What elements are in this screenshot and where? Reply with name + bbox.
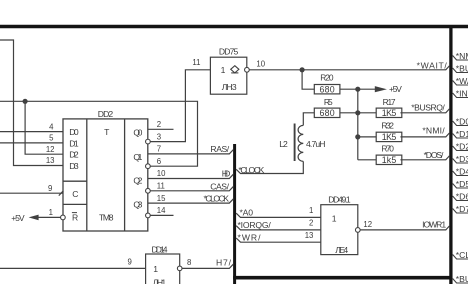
wire R5 left to L2 — [303, 113, 314, 126]
resistor R32 — [376, 132, 402, 141]
svg-text:HD: HD — [222, 169, 231, 179]
wire R17 to BUSRQ — [400, 109, 449, 113]
svg-text:1: 1 — [153, 264, 158, 274]
svg-text:CAS/: CAS/ — [210, 181, 229, 191]
svg-text:1: 1 — [332, 213, 337, 223]
svg-text:1: 1 — [309, 206, 313, 215]
svg-text:*INT: *INT — [456, 89, 468, 99]
bus top thick line — [0, 25, 468, 29]
pin 11 bubble — [146, 188, 151, 193]
wire R5 right — [340, 112, 358, 114]
svg-text:*A0: *A0 — [240, 207, 254, 217]
svg-text:*CLOCK: *CLOCK — [204, 194, 230, 204]
svg-text:8: 8 — [187, 258, 191, 267]
wire to DD2 pin 13 — [0, 40, 63, 166]
node junction — [23, 99, 28, 104]
svg-text:H7/: H7/ — [216, 258, 232, 268]
wire R32 to NMI — [400, 133, 449, 137]
svg-text:12: 12 — [363, 220, 372, 229]
inductor L2 core — [294, 124, 296, 162]
wire DD2 pin 2 stub — [148, 128, 174, 130]
bus flag hook — [453, 81, 468, 86]
bus flag hook — [453, 184, 468, 189]
svg-text:ЛН3: ЛН3 — [222, 82, 237, 92]
svg-text:*NMI/: *NMI/ — [422, 125, 445, 135]
wire R70 to DOS — [400, 156, 449, 160]
wire R17 left — [358, 112, 376, 114]
inductor L2 winding — [298, 125, 303, 161]
svg-text:RAS/: RAS/ — [210, 144, 229, 154]
wire flag WR to DD49.1 pin 13 — [236, 238, 321, 242]
bus flag hook — [453, 146, 468, 151]
DD14 output bubble — [177, 266, 182, 271]
svg-text:TM8: TM8 — [99, 212, 114, 222]
svg-text:15: 15 — [157, 194, 166, 203]
svg-text:1: 1 — [221, 65, 226, 75]
wire R20 to node — [340, 88, 358, 90]
svg-text:R20: R20 — [320, 73, 334, 83]
node junction — [355, 110, 360, 115]
bus flag hook — [453, 121, 468, 126]
svg-text:*NMI: *NMI — [456, 51, 468, 61]
svg-text:*IORQG/: *IORQG/ — [238, 220, 272, 230]
resistor R70 — [376, 155, 402, 164]
C input edge tick — [59, 191, 64, 196]
wire to DD2 pin 4 — [0, 131, 63, 133]
svg-text:*BUSAK: *BUSAK — [456, 274, 468, 284]
wire to R20 — [302, 70, 314, 89]
svg-text:*CLOCK: *CLOCK — [238, 165, 264, 175]
svg-text:T: T — [104, 127, 110, 137]
svg-text:DD75: DD75 — [219, 46, 239, 56]
svg-text:10: 10 — [256, 60, 265, 69]
bus left vertical bar — [233, 144, 236, 284]
wire node to +5V arrow — [358, 88, 375, 90]
svg-text:13: 13 — [46, 156, 55, 165]
svg-text:ЛЕ4: ЛЕ4 — [335, 245, 348, 255]
svg-text:10: 10 — [157, 169, 166, 178]
wire to DD2 pin 9 — [0, 192, 63, 194]
svg-text:*D0: *D0 — [456, 117, 468, 127]
wire flag A0 to DD49.1 pin 1 — [236, 213, 321, 217]
svg-text:D3: D3 — [69, 161, 79, 171]
D-flip-flop DD2 body — [63, 119, 148, 231]
svg-text:*WAIT/: *WAIT/ — [417, 60, 448, 70]
wire flag IORQG to DD49.1 pin 2 — [236, 226, 321, 230]
bus flag hook — [453, 134, 468, 139]
pin 14 bubble — [146, 213, 151, 218]
bus flag hook — [453, 93, 468, 98]
svg-text:D1: D1 — [69, 138, 79, 148]
svg-text:14: 14 — [157, 206, 166, 215]
svg-text:1k5: 1k5 — [382, 155, 397, 165]
svg-text:R70: R70 — [381, 143, 394, 153]
svg-text:D0: D0 — [69, 127, 79, 137]
svg-text:R17: R17 — [383, 97, 396, 107]
bus flag hook — [453, 279, 468, 284]
wire DD75 pin 10 to WAIT — [249, 66, 449, 70]
wire to DD2 pin 5 — [0, 142, 63, 144]
svg-text:*DOS/: *DOS/ — [424, 150, 444, 160]
svg-text:680: 680 — [320, 84, 335, 94]
svg-text:DD49.1: DD49.1 — [328, 194, 351, 204]
svg-text:DD2: DD2 — [98, 109, 114, 119]
wire R70 left — [358, 159, 376, 161]
resistor R5 — [314, 108, 340, 117]
wire DD14 pin 8 to H7 — [182, 264, 233, 268]
svg-text:ЛН1: ЛН1 — [153, 277, 167, 284]
svg-text:*WR/: *WR/ — [238, 233, 262, 243]
resistor R20 — [314, 85, 340, 94]
bus flag hook — [453, 255, 468, 260]
wire DD2 pin 7 RAS — [148, 150, 234, 154]
svg-text:1K5: 1K5 — [382, 108, 397, 118]
svg-text:R5: R5 — [324, 97, 333, 107]
open-collector diamond — [231, 66, 239, 73]
power +5V arrow left — [29, 215, 39, 221]
bus flag hook — [453, 209, 468, 214]
svg-text:1K5: 1K5 — [382, 132, 397, 142]
svg-text:R32: R32 — [381, 120, 394, 130]
svg-text:+5V: +5V — [389, 84, 402, 94]
wire DD2 pin 14 stub — [150, 214, 173, 216]
svg-text:C: C — [72, 189, 78, 199]
svg-text:*CLK: *CLK — [456, 250, 468, 260]
pin 6 bubble — [146, 164, 151, 169]
svg-text:DD14: DD14 — [152, 244, 168, 254]
bus flag hook — [453, 159, 468, 164]
svg-text:4: 4 — [49, 122, 54, 131]
svg-text:IOWR1: IOWR1 — [422, 220, 446, 230]
svg-text:L2: L2 — [279, 139, 288, 149]
wire vertical pullup rail — [357, 89, 359, 160]
bus flag hook — [453, 171, 468, 176]
bus flag hook — [453, 56, 468, 61]
bus right vertical bar — [449, 28, 452, 284]
svg-text:2: 2 — [309, 219, 313, 228]
svg-text:+5V: +5V — [11, 213, 25, 223]
svg-text:*D2: *D2 — [456, 142, 468, 152]
svg-text:13: 13 — [305, 231, 314, 240]
svg-text:5: 5 — [49, 134, 54, 143]
svg-text:Q1: Q1 — [133, 152, 142, 162]
svg-text:Q3: Q3 — [133, 200, 142, 210]
wire L2 bottom to CLOCK flag — [236, 161, 303, 173]
svg-text:6: 6 — [157, 157, 161, 166]
node junction — [355, 134, 360, 139]
pin 1 bubble — [61, 215, 66, 220]
wire +5V to DD2 pin 1 — [38, 216, 60, 218]
svg-text:1: 1 — [49, 208, 53, 217]
pin 3 bubble — [146, 139, 151, 144]
wire to DD14 pin 9 — [0, 267, 146, 269]
bus bottom thick line — [233, 276, 452, 280]
node junction — [300, 67, 305, 72]
bus flag hook — [453, 68, 468, 73]
svg-text:*WAIT: *WAIT — [456, 76, 468, 86]
svg-text:9: 9 — [48, 184, 52, 193]
svg-text:12: 12 — [46, 145, 55, 154]
wire net to DD2 pin 6 — [0, 101, 198, 166]
svg-text:*BUSRQ: *BUSRQ — [456, 64, 468, 74]
svg-text:D2: D2 — [69, 150, 79, 160]
svg-text:*BUSRQ/: *BUSRQ/ — [411, 102, 445, 112]
NAND gate DD49.1 body — [321, 205, 358, 255]
wire DD2 pin 3 to DD75 pin 11 — [150, 70, 210, 142]
wire R32 left — [358, 136, 376, 138]
svg-text:Q2: Q2 — [133, 176, 142, 186]
svg-text:*D1: *D1 — [456, 129, 468, 139]
svg-text:*D7: *D7 — [456, 204, 468, 214]
svg-text:*D6: *D6 — [456, 192, 468, 202]
svg-text:2: 2 — [157, 120, 161, 129]
svg-text:680: 680 — [320, 108, 335, 118]
bus flag hook — [453, 196, 468, 201]
power +5V arrow right — [375, 86, 387, 92]
svg-text:9: 9 — [127, 258, 131, 267]
svg-text:3: 3 — [157, 132, 161, 141]
svg-text:R: R — [72, 212, 78, 222]
wire DD2 pin 11 CAS — [150, 187, 233, 191]
svg-text:*D4: *D4 — [456, 167, 468, 177]
wire DD49.1 pin 12 to IOWR1 — [360, 226, 449, 230]
wire DD2 pin 10 HD — [148, 174, 234, 178]
inverter DD75 body — [210, 57, 246, 94]
DD49.1 output bubble — [355, 228, 360, 233]
node junction — [355, 87, 360, 92]
wire branch to DD2 pin 12 — [25, 101, 63, 154]
svg-text:*D5: *D5 — [456, 179, 468, 189]
svg-text:7: 7 — [157, 145, 161, 154]
inverter DD14 body — [146, 254, 180, 284]
wire DD2 pin 15 CLOCK — [148, 199, 234, 203]
svg-text:Q0: Q0 — [133, 128, 142, 138]
svg-text:11: 11 — [192, 58, 200, 67]
resistor R17 — [376, 108, 402, 117]
svg-text:*D3: *D3 — [456, 154, 468, 164]
svg-text:4.7uH: 4.7uH — [306, 139, 326, 149]
svg-text:11: 11 — [157, 182, 165, 191]
DD75 output bubble — [245, 67, 250, 72]
